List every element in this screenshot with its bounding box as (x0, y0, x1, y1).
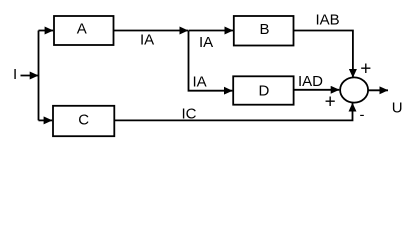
block C (53, 106, 114, 136)
wire branch to block A (39, 30, 54, 32)
wire input I to branch node (21, 75, 39, 77)
summing junction (340, 77, 368, 102)
svg-text:U: U (392, 100, 403, 117)
wire branch to block C (39, 119, 53, 121)
wire vertical branch (38, 31, 40, 121)
wire junction down to block D (189, 31, 233, 91)
svg-text:D: D (258, 83, 269, 100)
svg-text:+: + (325, 91, 336, 112)
svg-text:A: A (77, 21, 87, 38)
wire D output to summing junction left (294, 89, 340, 91)
block B (234, 16, 294, 46)
wire B output to summing junction top (294, 31, 353, 78)
svg-text:IAD: IAD (298, 73, 323, 90)
wire C output to summing junction bottom (114, 103, 352, 120)
svg-text:IA: IA (140, 32, 154, 49)
svg-text:+: + (360, 59, 371, 80)
block A (54, 16, 114, 45)
svg-text:I: I (13, 66, 17, 83)
block D (233, 76, 293, 104)
wire junction to block B (189, 30, 234, 32)
svg-text:B: B (259, 21, 269, 38)
svg-text:IA: IA (199, 34, 213, 51)
wire summing junction output (368, 89, 388, 91)
svg-text:C: C (78, 111, 89, 128)
svg-text:IC: IC (182, 105, 197, 122)
svg-text:IAB: IAB (316, 12, 340, 29)
wire A output to junction (114, 30, 189, 32)
svg-text:IA: IA (193, 74, 207, 91)
svg-text:-: - (360, 107, 365, 124)
